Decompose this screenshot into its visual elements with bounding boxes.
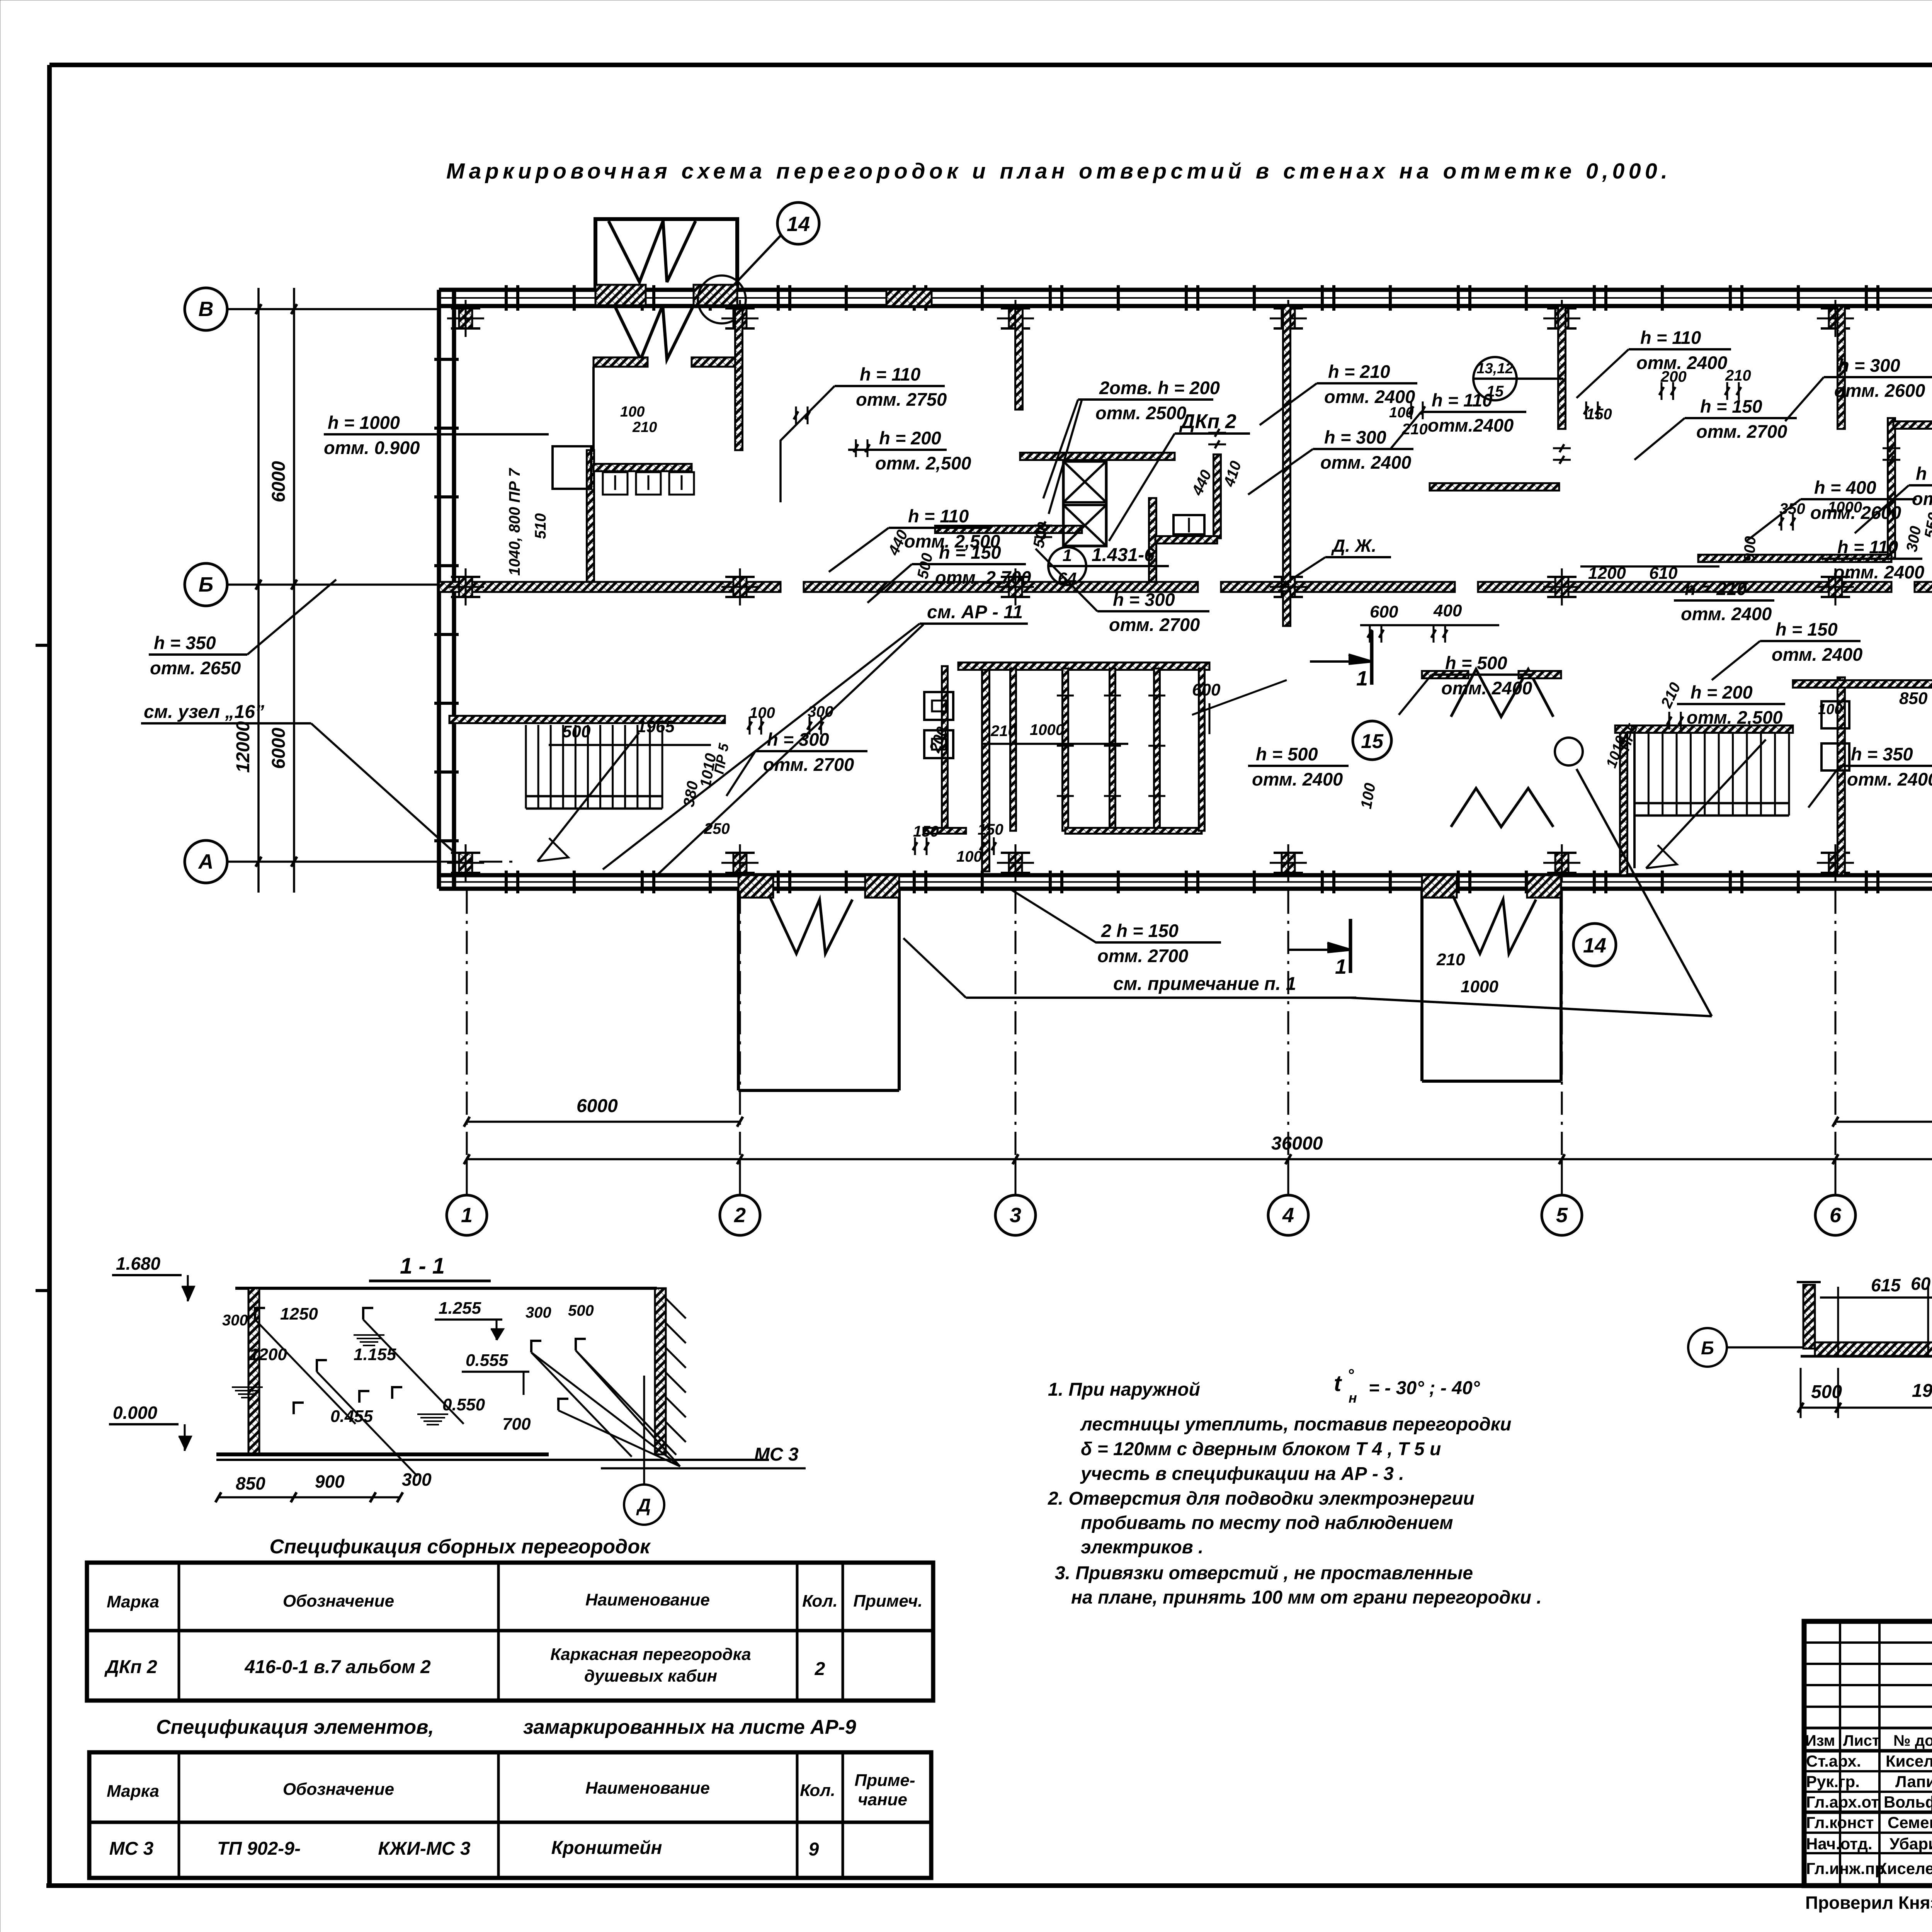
svg-text:Семенов: Семенов [1888, 1813, 1932, 1832]
svg-text:1965: 1965 [1912, 1381, 1932, 1401]
svg-text:14: 14 [787, 213, 810, 236]
svg-text:Гл.арх.от: Гл.арх.от [1806, 1793, 1879, 1811]
svg-text:отм. 2400: отм. 2400 [1320, 452, 1411, 473]
svg-text:пробивать по месту под наб: пробивать по месту под наблюдением [1081, 1513, 1453, 1533]
svg-text:h = 350: h = 350 [154, 633, 216, 653]
svg-text:отм. 2400: отм. 2400 [1681, 604, 1772, 624]
svg-text:100: 100 [1818, 701, 1842, 718]
svg-text:100: 100 [956, 848, 982, 865]
svg-text:Каркасная перегородка: Каркасная перегородка [550, 1645, 751, 1664]
svg-text:отм. 2400: отм. 2400 [1772, 644, 1862, 665]
svg-text:отм. 2400: отм. 2400 [1324, 386, 1415, 407]
svg-text:3. Привязки отверстий , не: 3. Привязки отверстий , не проставленные [1055, 1563, 1473, 1583]
svg-text:КЖИ-МС 3: КЖИ-МС 3 [378, 1838, 471, 1859]
svg-text:МС 3: МС 3 [754, 1444, 799, 1465]
svg-text:h = 210: h = 210 [1328, 361, 1390, 382]
svg-text:отм. 2,500: отм. 2,500 [875, 453, 971, 473]
svg-text:14: 14 [1583, 934, 1606, 957]
svg-text:см. узел „16”: см. узел „16” [144, 702, 264, 722]
svg-text:№ докум.: № докум. [1893, 1732, 1932, 1749]
svg-text:см. примечание п. 1: см. примечание п. 1 [1113, 974, 1296, 994]
svg-text:h = 300: h = 300 [767, 729, 829, 750]
svg-text:h = 400: h = 400 [1814, 477, 1876, 498]
svg-text:15: 15 [1486, 383, 1504, 400]
svg-text:Приме-: Приме- [854, 1771, 915, 1790]
svg-text:чание: чание [858, 1790, 907, 1809]
svg-text:Кисельман: Кисельман [1886, 1752, 1932, 1770]
svg-text:13,12: 13,12 [1476, 361, 1513, 377]
svg-text:h = 300: h = 300 [1324, 427, 1386, 447]
svg-text:Вольфензон: Вольфензон [1884, 1793, 1932, 1811]
svg-text:1. При наружной: 1. При наружной [1048, 1379, 1200, 1400]
svg-text:210: 210 [1725, 367, 1751, 384]
svg-text:отм. 2500: отм. 2500 [1095, 403, 1186, 423]
svg-text:Наименование: Наименование [585, 1779, 710, 1798]
svg-text:h = 110: h = 110 [1837, 537, 1898, 557]
svg-text:h = 300: h = 300 [1113, 589, 1175, 610]
svg-text:h = 500: h = 500 [1256, 744, 1318, 764]
svg-text:h = 110: h = 110 [1640, 327, 1701, 348]
svg-text:отм. 2700: отм. 2700 [763, 754, 854, 775]
svg-text:9: 9 [809, 1839, 819, 1860]
svg-text:отм.2400: отм.2400 [1428, 415, 1514, 435]
svg-text:1.680: 1.680 [116, 1253, 161, 1274]
svg-text:Марка: Марка [107, 1782, 159, 1801]
svg-text:1: 1 [1063, 546, 1072, 565]
svg-text:электриков .: электриков . [1081, 1537, 1203, 1558]
svg-text:1000: 1000 [1828, 499, 1862, 516]
svg-text:210: 210 [1436, 950, 1465, 969]
svg-text:510: 510 [532, 513, 549, 539]
svg-text:0.000: 0.000 [113, 1403, 158, 1423]
svg-text:1965: 1965 [637, 717, 675, 736]
svg-text:учесть в спецификации на А: учесть в спецификации на АР - 3 . [1080, 1464, 1404, 1484]
svg-text:отм. 2400: отм. 2400 [1847, 769, 1932, 789]
svg-text:отм. 2650: отм. 2650 [1912, 488, 1932, 509]
svg-text:600: 600 [1370, 602, 1398, 621]
svg-text:ДКп 2: ДКп 2 [1179, 410, 1236, 433]
svg-text:500: 500 [562, 722, 591, 741]
svg-text:h = 350: h = 350 [1851, 744, 1913, 764]
svg-text:МС 3: МС 3 [109, 1838, 154, 1859]
svg-text:2 h = 150: 2 h = 150 [1101, 920, 1179, 941]
svg-text:100: 100 [620, 404, 645, 420]
svg-text:5: 5 [1556, 1204, 1568, 1227]
svg-text:см. АР - 11: см. АР - 11 [927, 602, 1023, 622]
svg-text:Обозначение: Обозначение [283, 1780, 394, 1799]
svg-text:душевых кабин: душевых кабин [584, 1667, 717, 1685]
svg-text:°: ° [1347, 1366, 1354, 1384]
svg-text:500: 500 [568, 1302, 594, 1319]
svg-text:4: 4 [1282, 1204, 1294, 1227]
svg-text:1: 1 [461, 1204, 473, 1227]
svg-text:Марка: Марка [107, 1592, 159, 1611]
svg-text:отм. 2,500: отм. 2,500 [1687, 707, 1782, 728]
svg-text:Лист: Лист [1843, 1732, 1880, 1749]
svg-text:отм. 2400: отм. 2400 [1441, 678, 1532, 698]
svg-text:Кол.: Кол. [802, 1592, 838, 1611]
svg-text:h = 300: h = 300 [1838, 355, 1900, 376]
svg-text:300: 300 [526, 1304, 551, 1321]
svg-text:h = 200: h = 200 [879, 428, 941, 448]
svg-text:250: 250 [704, 820, 730, 837]
svg-text:н: н [1349, 1390, 1357, 1406]
svg-text:Ст.арх.: Ст.арх. [1806, 1752, 1861, 1770]
svg-text:2: 2 [815, 1659, 825, 1679]
svg-text:1200: 1200 [249, 1345, 287, 1364]
svg-text:Нач.отд.: Нач.отд. [1806, 1835, 1872, 1853]
svg-text:отм. 2400: отм. 2400 [1252, 769, 1343, 789]
svg-text:h = 200: h = 200 [1690, 682, 1753, 702]
svg-text:отм. 2,700: отм. 2,700 [935, 567, 1031, 588]
svg-text:δ = 120мм с дверным блоком: δ = 120мм с дверным блоком Т 4 , Т 5 и [1081, 1439, 1441, 1459]
svg-text:6000: 6000 [269, 728, 289, 769]
svg-text:150: 150 [978, 821, 1003, 838]
svg-text:отм. 2700: отм. 2700 [1696, 421, 1787, 442]
svg-text:600: 600 [1192, 680, 1221, 699]
svg-text:0.555: 0.555 [466, 1351, 509, 1370]
svg-text:Гл.инж.пр: Гл.инж.пр [1806, 1859, 1885, 1878]
svg-text:ДКп 2: ДКп 2 [104, 1657, 157, 1677]
svg-text:210: 210 [1401, 421, 1428, 438]
svg-text:Рук.гр.: Рук.гр. [1806, 1772, 1860, 1791]
svg-text:на плане, принять 100 мм о: на плане, принять 100 мм от грани перего… [1071, 1587, 1542, 1608]
svg-text:Кол.: Кол. [800, 1781, 835, 1800]
svg-text:h = 210: h = 210 [1685, 578, 1747, 599]
svg-text:отм. 2650: отм. 2650 [150, 658, 241, 678]
svg-text:3: 3 [1010, 1204, 1021, 1227]
svg-text:отм. 2600: отм. 2600 [1834, 380, 1925, 401]
svg-text:отм. 2700: отм. 2700 [1097, 946, 1188, 966]
svg-text:Наименование: Наименование [585, 1590, 710, 1609]
svg-text:отм. 2750: отм. 2750 [856, 389, 947, 410]
svg-text:Убариев: Убариев [1889, 1835, 1932, 1853]
svg-text:0.455: 0.455 [330, 1407, 373, 1426]
svg-text:ТП 902-9-: ТП 902-9- [217, 1838, 301, 1859]
svg-text:h = 110: h = 110 [860, 364, 920, 384]
svg-text:1.431-6: 1.431-6 [1092, 545, 1155, 565]
svg-text:Киселева: Киселева [1877, 1859, 1932, 1878]
svg-text:1 - 1: 1 - 1 [400, 1253, 445, 1279]
svg-text:Б: Б [199, 573, 213, 596]
svg-text:0.550: 0.550 [442, 1395, 485, 1414]
svg-text:1.255: 1.255 [439, 1299, 481, 1318]
svg-text:отм. 2400: отм. 2400 [1833, 562, 1924, 582]
svg-text:6000: 6000 [269, 461, 289, 502]
svg-text:h = 150: h = 150 [1700, 396, 1762, 417]
svg-text:15: 15 [1361, 730, 1384, 753]
svg-text:400: 400 [1433, 601, 1462, 620]
svg-text:Спецификация элементов,: Спецификация элементов, [156, 1716, 434, 1738]
svg-text:6000: 6000 [577, 1096, 618, 1116]
svg-text:615: 615 [1871, 1275, 1901, 1295]
svg-text:2: 2 [734, 1204, 746, 1227]
svg-text:Б: Б [1701, 1338, 1714, 1359]
svg-text:лестницы утеплить, поставив: лестницы утеплить, поставив перегородки [1080, 1414, 1511, 1435]
svg-text:Д: Д [636, 1495, 651, 1516]
svg-text:= - 30° ; - 40°: = - 30° ; - 40° [1369, 1378, 1480, 1398]
svg-text:1000: 1000 [1461, 977, 1498, 996]
svg-text:Спецификация сборных перегор: Спецификация сборных перегородок [270, 1536, 651, 1558]
svg-text:h = 500: h = 500 [1445, 653, 1507, 673]
svg-text:h = 150: h = 150 [939, 542, 1001, 563]
svg-text:h = 110: h = 110 [1432, 390, 1492, 410]
svg-text:850: 850 [1899, 689, 1928, 708]
svg-text:12000: 12000 [233, 721, 253, 773]
svg-text:h = 350: h = 350 [1916, 463, 1932, 484]
svg-text:Кронштейн: Кронштейн [551, 1838, 662, 1858]
svg-text:900: 900 [315, 1471, 345, 1492]
svg-text:850: 850 [236, 1473, 265, 1493]
svg-text:замаркированных на листе АР: замаркированных на листе АР-9 [523, 1716, 856, 1738]
svg-text:2. Отверстия для подводки: 2. Отверстия для подводки электроэнергии [1048, 1488, 1475, 1509]
svg-text:36000: 36000 [1271, 1133, 1323, 1154]
svg-text:Гл.конст: Гл.конст [1806, 1813, 1874, 1832]
svg-text:h = 110: h = 110 [908, 506, 969, 526]
svg-text:300: 300 [222, 1312, 248, 1329]
svg-text:1: 1 [1335, 955, 1347, 978]
svg-text:210: 210 [632, 419, 657, 435]
svg-text:В: В [199, 298, 214, 321]
svg-text:1040, 800 ПР 7: 1040, 800 ПР 7 [506, 468, 523, 576]
svg-text:отм. 2700: отм. 2700 [1109, 614, 1200, 635]
svg-text:1.155: 1.155 [354, 1345, 396, 1364]
svg-text:300: 300 [402, 1469, 432, 1490]
svg-text:2отв. h = 200: 2отв. h = 200 [1099, 378, 1220, 398]
svg-text:А: А [198, 850, 214, 873]
svg-text:6: 6 [1830, 1204, 1842, 1227]
svg-text:900: 900 [1741, 536, 1759, 563]
svg-text:Д. Ж.: Д. Ж. [1331, 536, 1376, 556]
svg-text:1250: 1250 [280, 1304, 318, 1323]
svg-text:64: 64 [1058, 569, 1077, 588]
svg-text:Обозначение: Обозначение [283, 1592, 394, 1611]
svg-text:700: 700 [502, 1415, 531, 1434]
svg-text:210: 210 [990, 723, 1017, 740]
svg-text:416-0-1 в.7 альбом 2: 416-0-1 в.7 альбом 2 [244, 1657, 431, 1677]
svg-text:Лапина: Лапина [1895, 1772, 1932, 1791]
svg-text:60: 60 [1911, 1274, 1931, 1294]
svg-text:h = 150: h = 150 [1776, 619, 1838, 639]
svg-text:h = 1000: h = 1000 [328, 412, 400, 433]
svg-text:t: t [1334, 1371, 1342, 1396]
svg-text:Маркировочная схема пер: Маркировочная схема перегородок и план о… [446, 159, 1667, 184]
svg-text:Примеч.: Примеч. [853, 1592, 922, 1611]
svg-text:Проверил Князева: Проверил Князева [1805, 1893, 1932, 1913]
svg-text:1000: 1000 [1030, 721, 1064, 738]
svg-text:1: 1 [1356, 667, 1368, 690]
svg-text:Изм: Изм [1805, 1732, 1835, 1749]
svg-text:отм. 0.900: отм. 0.900 [324, 437, 420, 458]
